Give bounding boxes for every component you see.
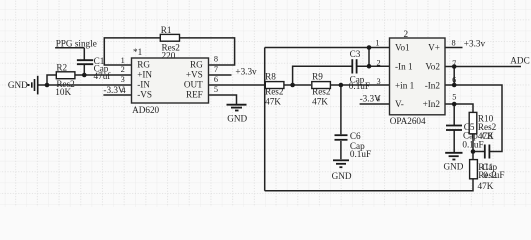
node R8/R9/C3 <box>290 83 295 88</box>
svg-text:8: 8 <box>214 55 218 64</box>
capacitor C3 <box>352 59 356 73</box>
resistor R8 <box>265 82 284 89</box>
svg-text:OPA2604: OPA2604 <box>390 116 426 126</box>
svg-text:+IN: +IN <box>137 70 152 80</box>
node C1/+IN <box>82 73 87 78</box>
op-amp U? OPA2604 body <box>390 38 446 115</box>
node GND/R2 branch <box>45 83 50 88</box>
svg-text:RG: RG <box>190 60 203 70</box>
wire GND to -IN pin3 <box>39 84 132 86</box>
svg-text:8: 8 <box>452 39 456 48</box>
svg-text:V-: V- <box>395 99 404 109</box>
node Vo2 <box>452 64 457 69</box>
wire top to OPA pin1 <box>265 47 390 49</box>
wire C6 vertical top <box>340 85 342 134</box>
wire R9 to OPA pin3 <box>330 84 389 86</box>
svg-text:7: 7 <box>452 59 456 68</box>
svg-text:2: 2 <box>404 29 409 39</box>
node -In2 <box>452 83 457 88</box>
node -In1/C3 <box>367 64 372 69</box>
resistor R9 <box>312 82 331 89</box>
ground earth under C6 <box>333 160 349 167</box>
wire bottom to R11 <box>265 179 473 191</box>
wire C8 to divider node <box>473 151 485 153</box>
svg-text:6: 6 <box>452 76 456 85</box>
svg-text:R9: R9 <box>312 71 323 81</box>
wire OPA pin8 +3.3v <box>445 47 463 49</box>
node +In2/C5 <box>452 102 457 107</box>
svg-text:R8: R8 <box>265 71 276 81</box>
wire pin1 to R1 left loop <box>104 38 160 65</box>
svg-text:220: 220 <box>162 50 176 60</box>
wire R10 bottom to node <box>472 134 474 152</box>
svg-text:-IN: -IN <box>137 80 150 90</box>
op-amp U? AD620 body <box>132 58 209 103</box>
svg-text:C6: C6 <box>350 131 361 141</box>
svg-text:0.1uF: 0.1uF <box>349 81 370 91</box>
svg-text:GND: GND <box>332 171 352 181</box>
svg-text:OUT: OUT <box>184 80 203 90</box>
wire -3.3V stub pin4 <box>103 94 131 96</box>
wire node to R11 top <box>472 152 474 160</box>
resistor R11 <box>470 160 478 179</box>
svg-text:2: 2 <box>121 65 125 74</box>
svg-text:+VS: +VS <box>186 70 203 80</box>
svg-text:0.1uF: 0.1uF <box>350 149 371 159</box>
capacitor C5 <box>446 126 462 131</box>
svg-text:ADC: ADC <box>510 56 529 66</box>
node R10/R11/C8 <box>471 149 476 154</box>
svg-text:1: 1 <box>121 56 125 65</box>
svg-text:7: 7 <box>214 65 218 74</box>
wire node up to C3 <box>293 66 353 85</box>
svg-text:*1: *1 <box>133 47 143 57</box>
wire R2 to +IN pin2 <box>75 74 132 76</box>
svg-text:GND: GND <box>227 114 247 124</box>
svg-text:3: 3 <box>121 75 125 84</box>
svg-text:10K: 10K <box>55 87 71 97</box>
svg-text:+In2: +In2 <box>423 99 441 109</box>
capacitor C6 <box>335 135 348 140</box>
wire R1 right loop to pin8 <box>180 38 235 65</box>
node Vo1 feedback top <box>367 45 372 50</box>
wire GND branch up to R2 <box>47 75 56 85</box>
svg-text:+3.3v: +3.3v <box>464 38 486 48</box>
svg-text:C3: C3 <box>350 49 361 59</box>
svg-text:3: 3 <box>377 77 381 86</box>
svg-text:5: 5 <box>452 92 456 101</box>
svg-text:C8: C8 <box>482 131 493 141</box>
ground earth under AD620 pin5 <box>227 105 247 111</box>
capacitor C1 <box>77 60 93 64</box>
capacitor C8 <box>485 145 490 159</box>
svg-text:V+: V+ <box>428 43 440 53</box>
svg-text:R1: R1 <box>161 25 172 35</box>
ground GND power port left <box>28 76 38 95</box>
wire OPA pin7 ADC <box>445 66 521 68</box>
svg-text:Res2: Res2 <box>265 87 284 97</box>
ground earth under C5 <box>445 153 462 160</box>
svg-text:47K: 47K <box>265 97 281 107</box>
svg-text:-VS: -VS <box>137 90 152 100</box>
svg-text:47uf: 47uf <box>94 71 112 81</box>
svg-text:6: 6 <box>214 75 218 84</box>
wire long vertical left of loop <box>264 48 266 191</box>
wire pin7 +3.3v <box>209 74 232 76</box>
wire PPG single <box>55 47 84 49</box>
svg-text:47K: 47K <box>312 97 328 107</box>
wire pin6 OUT to R8 <box>209 84 265 86</box>
node C6/+in1 <box>339 83 344 88</box>
svg-text:Res2: Res2 <box>312 87 331 97</box>
wire C3 to OPA pin2 <box>357 65 390 67</box>
svg-text:AD620: AD620 <box>132 105 159 115</box>
svg-text:-In2: -In2 <box>425 80 441 90</box>
wire pin5 to R10 <box>445 104 473 113</box>
svg-text:PPG single: PPG single <box>56 38 97 48</box>
wire -In2 loop to C8 <box>445 85 502 152</box>
wire Vo2 to -In2 feedback <box>453 67 455 86</box>
svg-text:RG: RG <box>137 60 150 70</box>
wire OPA pin4 -3.3V stub <box>360 103 390 105</box>
svg-text:GND: GND <box>8 80 28 90</box>
resistor R1 <box>160 34 179 41</box>
wire OPA pin1 feedback vertical <box>368 48 370 67</box>
svg-text:Vo2: Vo2 <box>425 62 440 72</box>
resistor R2 <box>56 72 75 79</box>
svg-text:5: 5 <box>214 85 218 94</box>
svg-text:R2: R2 <box>56 62 67 72</box>
resistor R10 <box>469 112 477 133</box>
wire C5 to GND <box>453 130 455 152</box>
svg-text:-In 1: -In 1 <box>395 62 413 72</box>
wire R8 to R9 <box>284 84 311 86</box>
wire pin5 node down to C5 <box>453 104 455 125</box>
svg-text:1: 1 <box>375 39 379 48</box>
wire C6 to GND <box>340 141 342 159</box>
svg-text:2: 2 <box>377 59 381 68</box>
svg-text:+in 1: +in 1 <box>395 80 415 90</box>
svg-text:GND: GND <box>444 162 464 172</box>
svg-text:Vo1: Vo1 <box>395 43 410 53</box>
node junction dots <box>45 45 476 154</box>
svg-text:REF: REF <box>186 90 203 100</box>
svg-text:0.1uF: 0.1uF <box>483 170 504 180</box>
svg-text:+3.3v: +3.3v <box>235 67 257 77</box>
svg-text:47K: 47K <box>478 181 494 191</box>
wire C1 vertical <box>83 48 85 75</box>
wire pin5 REF to GND <box>209 95 237 104</box>
